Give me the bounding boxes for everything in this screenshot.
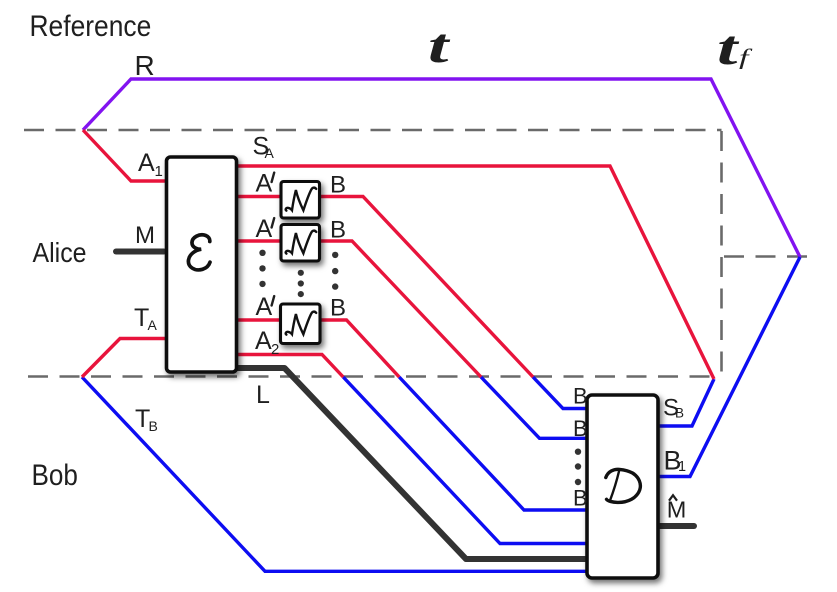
svg-text:1: 1 [155,163,163,180]
svg-text:t: t [717,20,739,75]
svg-text:A: A [148,317,158,333]
svg-text:R: R [135,50,155,81]
svg-text:B: B [330,295,346,322]
svg-text:A: A [256,215,273,243]
svg-text:B: B [330,172,346,199]
svg-text:Bob: Bob [32,458,78,491]
svg-text:B: B [330,217,346,244]
svg-text:L: L [256,381,270,409]
svg-text:Reference: Reference [30,8,152,42]
svg-text:B: B [573,486,588,511]
svg-text:B: B [149,418,158,434]
svg-text:B: B [573,416,588,441]
svg-text:B: B [573,384,588,409]
svg-text:2: 2 [271,341,279,358]
svg-text:f: f [739,45,753,70]
svg-text:A: A [265,145,275,161]
svg-text:1: 1 [678,459,686,475]
svg-text:Alice: Alice [33,237,87,269]
svg-text:t: t [428,18,450,73]
svg-text:B: B [675,406,684,421]
svg-text:M: M [135,222,155,249]
svg-text:A: A [138,149,155,177]
svg-text:A: A [255,327,272,355]
svg-text:A: A [256,170,273,198]
svg-text:A: A [256,293,273,321]
